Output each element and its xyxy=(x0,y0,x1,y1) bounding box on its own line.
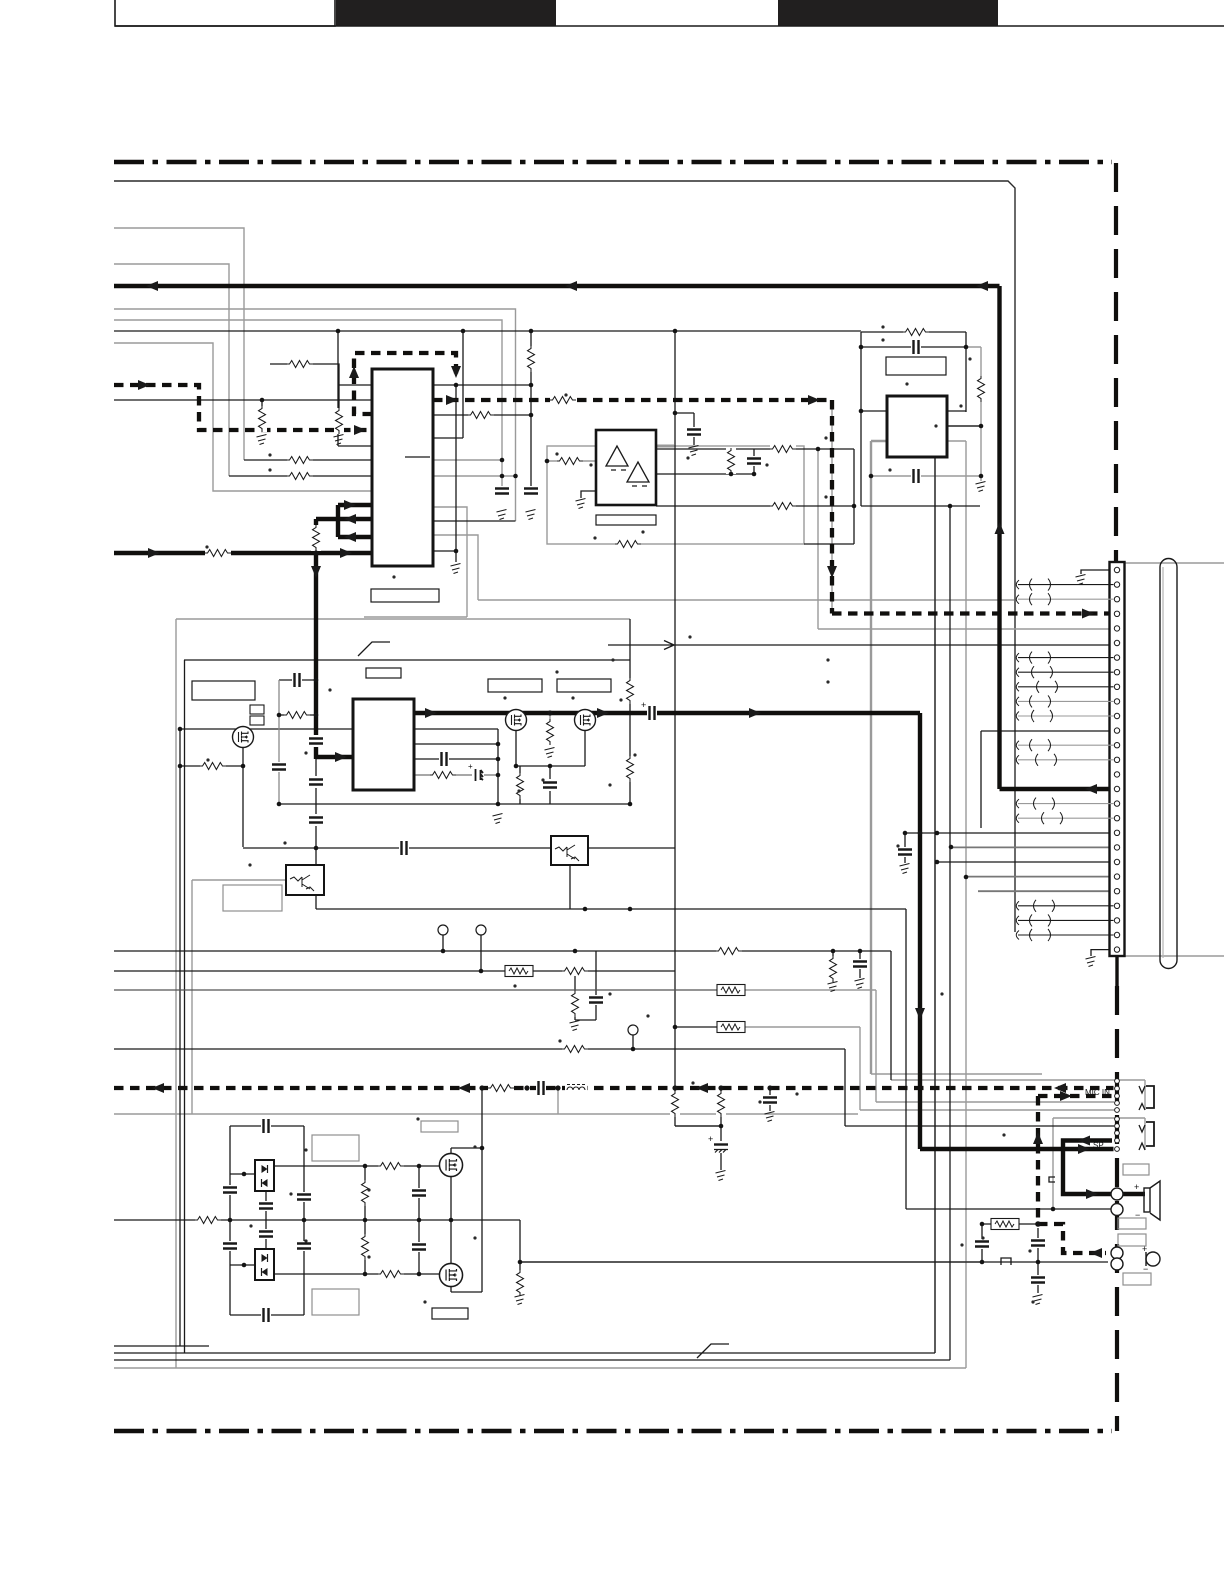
svg-text:+: + xyxy=(1134,1182,1139,1192)
svg-text:SP: SP xyxy=(1093,1141,1104,1150)
svg-text:+: + xyxy=(641,700,646,710)
svg-text:+: + xyxy=(708,1134,713,1144)
svg-text:+: + xyxy=(1142,1244,1147,1254)
svg-text:MIC IN: MIC IN xyxy=(1085,1088,1110,1097)
svg-text:−: − xyxy=(1135,1210,1140,1220)
svg-text:−: − xyxy=(1143,1264,1148,1274)
svg-text:+: + xyxy=(468,762,473,771)
